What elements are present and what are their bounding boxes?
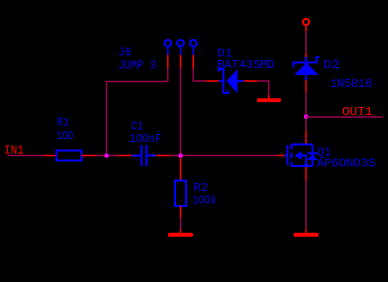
wire node A segment R1 to C1 <box>96 155 119 157</box>
svg-text:R1: R1 <box>57 115 70 129</box>
svg-text:D2: D2 <box>323 58 340 72</box>
svg-text:AP6ONO3S: AP6ONO3S <box>317 156 376 170</box>
svg-text:JUMP 3: JUMP 3 <box>118 58 156 72</box>
pin Q1 source <box>305 167 307 181</box>
transistor Q1 body diode branch <box>312 145 314 167</box>
wire port to D2 <box>305 32 307 54</box>
wire node A up to jumper <box>107 82 168 156</box>
junction node B <box>179 154 183 158</box>
transistor Q1 source stub <box>292 165 313 167</box>
ground symbol at D1 <box>257 98 281 102</box>
transistor Q1 body arrow line <box>302 156 307 167</box>
capacitor C1 lead left <box>132 155 141 157</box>
diode D1 cathode bar with schottky hooks <box>219 69 228 93</box>
wire J6.3 to D1 <box>193 68 206 81</box>
jumper J6 pin 2 lead <box>180 46 182 55</box>
diode D2 anode lead <box>305 75 307 80</box>
diode D2 triangle <box>294 63 318 75</box>
ground symbol at Q1 <box>294 233 319 237</box>
ground symbol at R2 <box>168 233 193 237</box>
svg-text:IN1: IN1 <box>4 144 24 158</box>
svg-text:1N5818: 1N5818 <box>330 77 372 91</box>
wire IN1 net: left segment <box>8 155 45 157</box>
transistor Q1 body arrow <box>295 151 302 160</box>
junction node OUT1 <box>304 115 308 119</box>
diode D2 cathode lead <box>305 57 307 63</box>
pin J6.1 <box>167 55 169 68</box>
wire R2 to ground <box>180 218 182 229</box>
resistor R1 <box>57 151 82 161</box>
pin J6.2 <box>180 55 182 68</box>
pin C1.1 <box>119 155 132 157</box>
capacitor C1 lead right <box>148 155 157 157</box>
svg-text:BAT43SMD: BAT43SMD <box>217 58 275 72</box>
pin R1.2 <box>82 155 97 157</box>
wire OUT1 to right <box>306 116 383 118</box>
transistor Q1 body diode bar <box>308 152 318 154</box>
transistor Q1 body diode triangle <box>307 154 317 160</box>
pin ground D1 <box>268 94 270 98</box>
pin D2 cathode <box>305 54 307 58</box>
svg-text:1OOk: 1OOk <box>193 194 217 208</box>
diode D1 triangle <box>226 69 237 93</box>
pin ground R2 <box>180 229 182 232</box>
pin Q1 gate <box>277 155 285 157</box>
wire D1 to ground <box>257 81 269 94</box>
junction node A <box>105 154 109 158</box>
pin C1.2 <box>156 155 170 157</box>
wire node B segment C1 to Q1 gate <box>170 155 278 157</box>
transistor Q1 body junction blob <box>305 164 309 168</box>
transistor Q1 drain stub <box>292 144 313 146</box>
jumper J6 pin 2 circle <box>177 40 184 47</box>
pin D2 anode <box>305 80 307 92</box>
capacitor C1 plates <box>142 145 147 166</box>
pin D1 anode <box>244 80 258 82</box>
jumper J6 pin 3 circle <box>190 40 197 47</box>
svg-text:1OOnF: 1OOnF <box>130 132 162 146</box>
transistor Q1 gate lead <box>285 155 288 157</box>
diode D1 cathode lead <box>219 80 223 82</box>
wire D2 to node OUT1 <box>305 92 307 131</box>
wire J6.1 down <box>167 68 169 81</box>
diode D1 anode lead <box>238 80 244 82</box>
pin R1.1 <box>45 155 57 157</box>
wire Q1 source to ground <box>305 181 307 230</box>
pin D1 cathode <box>207 80 220 82</box>
pin Q1 drain <box>305 131 307 145</box>
svg-text:OUT1: OUT1 <box>342 105 373 119</box>
transistor Q1 gate bar <box>287 145 289 165</box>
pin R2.1 <box>180 158 182 181</box>
resistor R2 <box>175 181 186 207</box>
pin R2.2 <box>180 206 182 218</box>
port P1 circle <box>303 19 309 25</box>
diode D2 cathode bar with schottky hooks <box>294 57 320 68</box>
pin J6.3 <box>192 55 194 68</box>
svg-text:1OO: 1OO <box>57 129 74 143</box>
transistor Q1 channel segments <box>291 144 293 167</box>
wire J6.2 down to node B <box>180 68 182 155</box>
pin ground Q1 <box>305 229 307 233</box>
jumper J6 pin 1 lead <box>167 46 169 55</box>
pin port P1 <box>305 25 307 31</box>
jumper J6 pin 1 circle <box>165 40 172 47</box>
jumper J6 pin 3 lead <box>192 46 194 55</box>
